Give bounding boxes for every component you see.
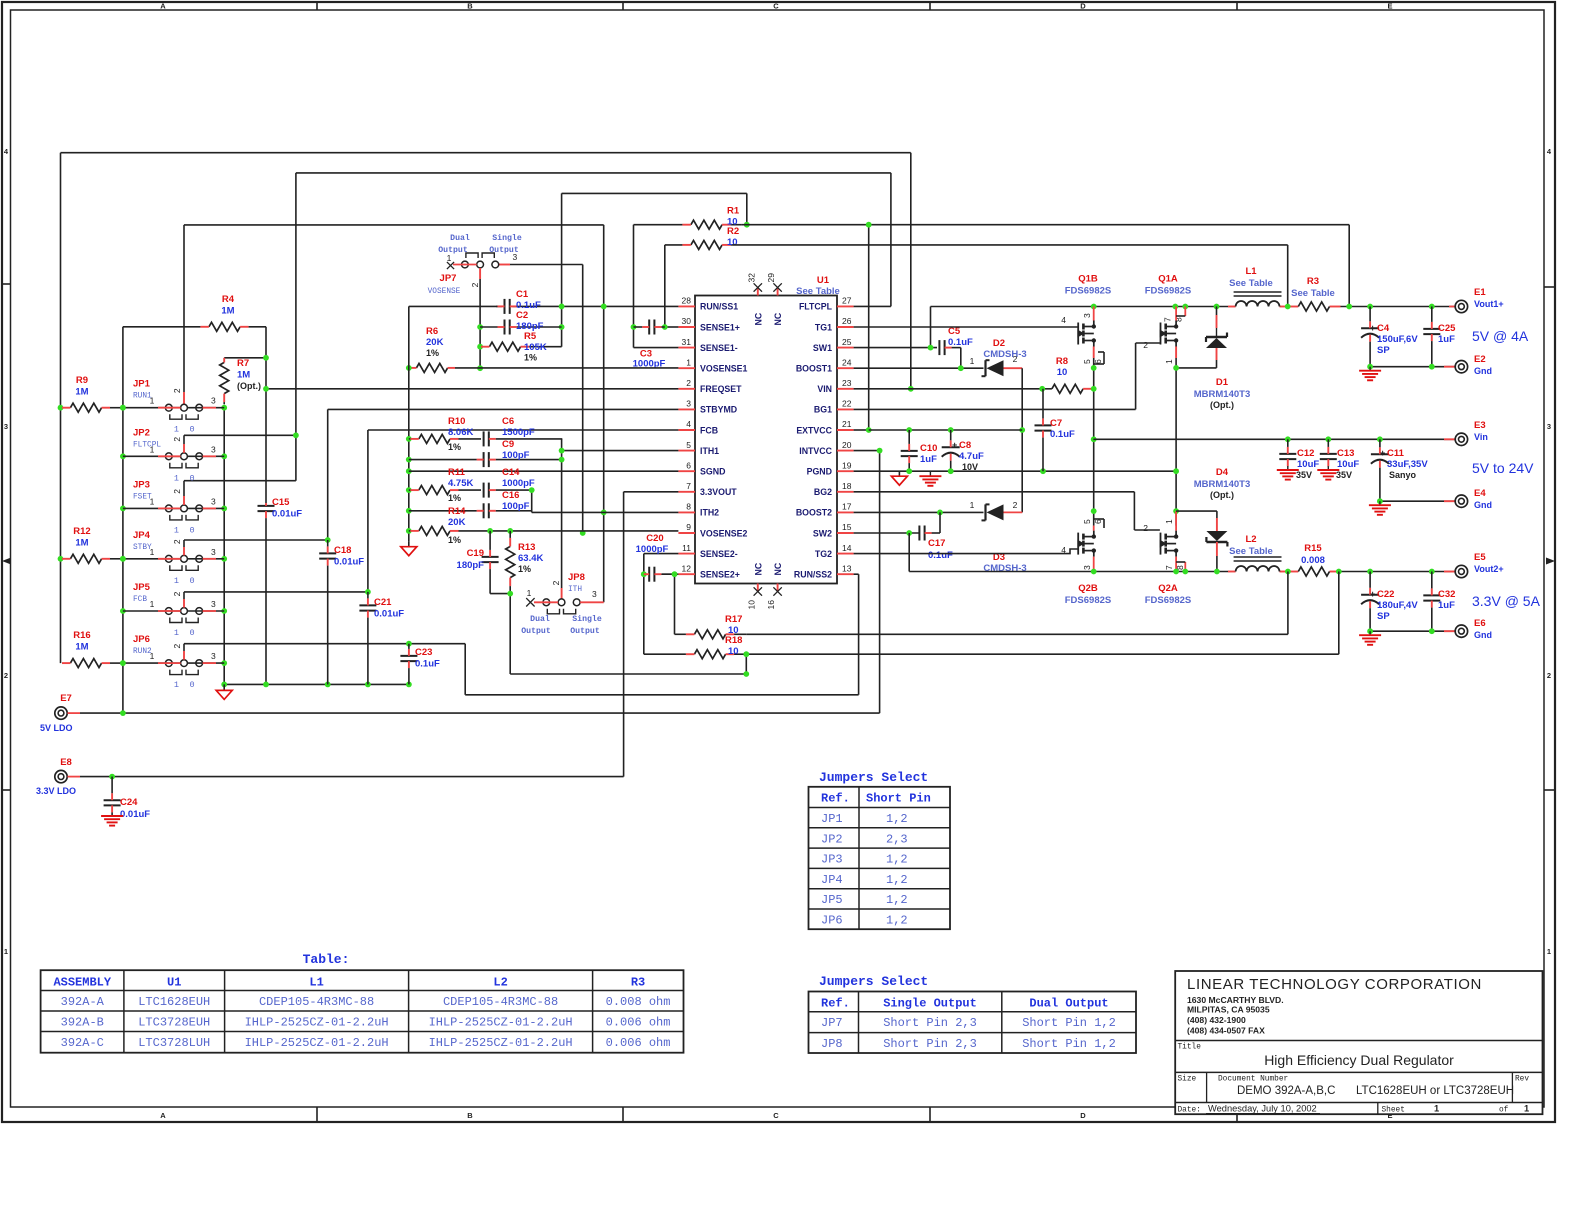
U1 pin 5 stub (ITH1) (678, 450, 695, 452)
svg-text:2: 2 (1143, 523, 1148, 533)
svg-text:392A-A: 392A-A (61, 995, 105, 1009)
svg-text:Vin: Vin (1474, 432, 1488, 442)
svg-text:1000pF: 1000pF (636, 544, 669, 555)
svg-text:MBRM140T3: MBRM140T3 (1194, 389, 1251, 400)
svg-text:Output: Output (438, 246, 468, 255)
svg-text:C21: C21 (374, 597, 392, 608)
svg-text:1: 1 (4, 947, 8, 956)
svg-text:25: 25 (842, 337, 852, 347)
svg-text:R15: R15 (1304, 543, 1322, 554)
JP6 position labels 1 0 (174, 680, 195, 690)
svg-text:1: 1 (150, 547, 155, 557)
svg-text:Jumpers Select: Jumpers Select (819, 770, 928, 785)
JP4 position labels 1 0 (174, 576, 195, 586)
D3 pin labels (970, 500, 1018, 510)
svg-text:CDEP105-4R3MC-88: CDEP105-4R3MC-88 (259, 995, 374, 1009)
svg-text:BOOST2: BOOST2 (796, 508, 832, 518)
svg-text:2,3: 2,3 (886, 832, 908, 846)
capacitor C9 (409, 452, 562, 467)
svg-text:29: 29 (766, 273, 776, 283)
svg-text:1: 1 (1524, 1104, 1529, 1114)
svg-text:C18: C18 (334, 545, 351, 556)
svg-text:DEMO 392A-A,B,C: DEMO 392A-A,B,C (1237, 1085, 1335, 1097)
svg-text:5V @ 4A: 5V @ 4A (1472, 328, 1529, 344)
JP7 pin 1 no-connect X and lead (447, 262, 477, 269)
svg-text:LTC1628EUH: LTC1628EUH (138, 995, 210, 1009)
capacitor C6 (484, 431, 563, 446)
wire Q2A gate from BG2 (854, 492, 1160, 530)
wire sense riser R15 right (1338, 572, 1340, 655)
svg-text:1: 1 (1164, 519, 1174, 524)
svg-text:C: C (773, 1111, 779, 1120)
capacitor C18 (319, 540, 336, 684)
svg-text:INTVCC: INTVCC (799, 446, 832, 456)
svg-text:0.006 ohm: 0.006 ohm (606, 1016, 671, 1030)
svg-text:1%: 1% (426, 348, 439, 358)
transistor Q2B (1077, 531, 1096, 557)
table jumpers-select-1 grid (809, 787, 951, 929)
svg-text:C17: C17 (928, 538, 945, 549)
svg-text:3: 3 (4, 422, 8, 431)
svg-text:1,2: 1,2 (886, 873, 908, 887)
svg-text:Ref.: Ref. (821, 792, 850, 806)
JP8 pin labels 1 2 3 (527, 580, 597, 599)
svg-text:C7: C7 (1050, 418, 1062, 429)
svg-text:5: 5 (1082, 519, 1092, 524)
svg-text:LTC3728EUH: LTC3728EUH (138, 1016, 210, 1030)
svg-text:R10: R10 (448, 416, 465, 427)
ground symbol C13 (1317, 467, 1339, 480)
capacitor C17 (919, 526, 940, 541)
svg-text:Q1B: Q1B (1078, 274, 1098, 285)
svg-text:0: 0 (189, 525, 194, 535)
svg-text:R16: R16 (73, 630, 90, 641)
svg-text:1%: 1% (518, 564, 531, 574)
U1 NC pin 10 bottom stub (757, 584, 759, 592)
svg-text:Sheet: Sheet (1382, 1107, 1405, 1115)
table jumpers-select-1 row JP3 (821, 853, 908, 867)
table jumpers-select-2 grid (809, 992, 1137, 1054)
JP7 Dual Output label (438, 233, 470, 255)
svg-text:BG1: BG1 (814, 405, 832, 415)
svg-text:105K: 105K (524, 342, 547, 353)
svg-text:(408) 434-0507 FAX: (408) 434-0507 FAX (1187, 1026, 1265, 1036)
wire FREQSET pull network column (224, 327, 678, 503)
svg-text:C6: C6 (502, 416, 514, 427)
wire Q2B source to SW2 rail (1093, 557, 1095, 572)
wire STBY net JP4 to pin 3 (184, 409, 678, 555)
svg-text:4.7uF: 4.7uF (959, 451, 984, 462)
svg-text:R2: R2 (727, 226, 739, 237)
svg-text:R1: R1 (727, 206, 740, 217)
svg-text:JP6: JP6 (821, 914, 843, 928)
diode D4 (1206, 511, 1227, 571)
connector E3 (1444, 433, 1468, 445)
svg-text:ITH: ITH (568, 586, 582, 594)
capacitor C22 (polarized) (1361, 572, 1379, 632)
svg-text:SP: SP (1377, 345, 1390, 356)
ground symbol signal ground bus (401, 542, 417, 556)
JP6 pin1 lead (123, 662, 181, 664)
wire Q1B source pins 5/6 to VIN node (1091, 347, 1104, 526)
svg-text:Date:: Date: (1178, 1107, 1201, 1115)
svg-text:35V: 35V (1336, 470, 1352, 480)
svg-text:+: + (952, 440, 957, 450)
svg-text:C24: C24 (120, 797, 138, 808)
Q2B pin number labels (1061, 519, 1103, 570)
svg-text:(Opt.): (Opt.) (1210, 400, 1234, 410)
svg-text:0.006 ohm: 0.006 ohm (606, 1036, 671, 1050)
wire SW2 corner to rail (908, 533, 910, 572)
svg-text:3: 3 (211, 496, 216, 506)
svg-text:1: 1 (1434, 1104, 1439, 1114)
svg-text:E: E (1387, 2, 1392, 11)
svg-text:Vout2+: Vout2+ (1474, 564, 1504, 574)
svg-text:19: 19 (842, 460, 852, 470)
svg-text:IHLP-2525CZ-01-2.2uH: IHLP-2525CZ-01-2.2uH (429, 1016, 573, 1030)
svg-text:1: 1 (174, 628, 179, 638)
svg-text:FDS6982S: FDS6982S (1145, 286, 1191, 297)
JP5 pin1 lead (123, 610, 181, 612)
svg-text:0: 0 (189, 425, 194, 435)
wire Q2A source pins 7/8 to SW2 rail (1176, 557, 1185, 572)
svg-text:0.01uF: 0.01uF (120, 809, 150, 820)
svg-text:3: 3 (211, 444, 216, 454)
svg-text:2: 2 (172, 489, 182, 494)
capacitor C24 (104, 777, 121, 816)
svg-text:NC: NC (753, 562, 763, 575)
svg-text:MBRM140T3: MBRM140T3 (1194, 479, 1251, 490)
JP3 pin3 lead (187, 507, 224, 509)
resistor R8 (1052, 384, 1094, 393)
inductor L1 (1234, 292, 1282, 307)
svg-text:4: 4 (1061, 315, 1066, 325)
wire R1 output sense net to EXTVCC (742, 222, 1350, 433)
svg-text:1: 1 (174, 576, 179, 586)
JP3 pin1 lead (123, 507, 181, 509)
wire SENSE2- net (pin 11) (641, 554, 679, 655)
svg-text:1: 1 (1547, 947, 1551, 956)
svg-text:1: 1 (174, 425, 179, 435)
svg-text:RUN/SS1: RUN/SS1 (700, 302, 738, 312)
svg-text:Gnd: Gnd (1474, 500, 1492, 510)
Q2A pin number labels (1143, 519, 1185, 570)
svg-text:392A-B: 392A-B (61, 1016, 104, 1030)
wire R9 to JP1 pin1 (110, 407, 123, 409)
svg-text:Short Pin 2,3: Short Pin 2,3 (883, 1037, 977, 1051)
svg-text:4.75K: 4.75K (448, 478, 473, 489)
wire BOOST2 row (854, 510, 984, 516)
table main row 392A-B (61, 1016, 671, 1030)
svg-text:16: 16 (766, 600, 776, 610)
wire Q1A gate from BG1 (854, 343, 1160, 409)
svg-text:IHLP-2525CZ-01-2.2uH: IHLP-2525CZ-01-2.2uH (429, 1036, 573, 1050)
JP6 pin number labels (150, 643, 216, 661)
transistor Q2A (1160, 531, 1179, 557)
wire JP7 pin2 riser to divider (477, 268, 483, 371)
svg-text:JP5: JP5 (821, 893, 843, 907)
svg-text:JP7: JP7 (821, 1016, 843, 1030)
svg-text:3: 3 (1082, 313, 1092, 318)
ground symbol C24 (101, 816, 123, 826)
svg-text:U1: U1 (817, 275, 830, 286)
svg-text:2: 2 (172, 591, 182, 596)
resistor R9 (62, 403, 110, 412)
capacitor C21 (359, 592, 376, 685)
JP8 pin 1 no-connect X and lead (526, 598, 558, 606)
U1 NC pin 29 top stub (777, 288, 779, 296)
Q1B pin number labels (1061, 313, 1103, 364)
svg-text:26: 26 (842, 316, 852, 326)
ground symbol output2 (1359, 631, 1381, 645)
svg-text:Dual: Dual (530, 614, 550, 624)
JP4 pin3 lead (187, 558, 224, 560)
wire EXTVCC boost-diode riser (1019, 368, 1025, 512)
JP4 pin number labels (150, 539, 216, 557)
JP4 pin1 lead (123, 558, 181, 560)
svg-text:JP2: JP2 (133, 427, 150, 438)
svg-text:Title: Title (1178, 1044, 1202, 1052)
zone row dividers right (1544, 287, 1555, 790)
diode D2 (982, 360, 1023, 376)
jumper JP8 (543, 599, 580, 614)
JP5 pin3 lead (187, 610, 224, 612)
svg-text:SENSE2-: SENSE2- (700, 549, 738, 559)
svg-text:PGND: PGND (807, 467, 832, 477)
svg-text:A: A (160, 2, 166, 11)
svg-text:See Table: See Table (796, 286, 840, 297)
svg-text:Sanyo: Sanyo (1389, 470, 1417, 480)
JP7 pin labels 1 2 3 (447, 252, 518, 287)
svg-text:0.1uF: 0.1uF (1050, 429, 1075, 440)
connector E4 (1444, 495, 1468, 507)
svg-text:1M: 1M (75, 642, 88, 653)
svg-text:20: 20 (842, 440, 852, 450)
connector E8 (55, 770, 80, 782)
JP1 pin1 lead (123, 407, 181, 409)
svg-text:3.3VOUT: 3.3VOUT (700, 487, 737, 497)
U1 pin 17 stub (BOOST2) (837, 511, 854, 513)
U1 pin 30 stub (SENSE1+) (678, 326, 695, 328)
svg-text:E5: E5 (1474, 552, 1486, 563)
U1 pin 12 stub (SENSE2+) (678, 573, 695, 575)
svg-text:R8: R8 (1056, 356, 1068, 367)
svg-text:RUN/SS2: RUN/SS2 (794, 570, 832, 580)
capacitor C12 (1279, 439, 1296, 467)
wire bypass ground bus bottom (221, 682, 411, 688)
svg-text:3.3V LDO: 3.3V LDO (36, 786, 76, 796)
svg-text:SW1: SW1 (813, 343, 832, 353)
svg-text:R7: R7 (237, 358, 249, 369)
U1 pin 2 stub (FREQSET) (678, 388, 695, 390)
U1 NC pin 32 top stub (757, 288, 759, 296)
svg-text:D2: D2 (993, 338, 1005, 349)
wire Q1A drain pins 7/8 to SW1 rail (1176, 307, 1185, 321)
svg-text:1%: 1% (524, 353, 537, 363)
U1 pin 7 stub (3.3VOUT) (678, 491, 695, 493)
U1 NC pin 16 no-connect X (773, 587, 781, 595)
svg-text:24: 24 (842, 357, 852, 367)
table jumpers-select-1 row JP1 (821, 812, 908, 826)
ground symbol PGND triangle (891, 471, 907, 485)
zone numbers right 4-1 (1547, 147, 1552, 956)
svg-text:LINEAR TECHNOLOGY CORPORATION: LINEAR TECHNOLOGY CORPORATION (1187, 976, 1482, 993)
svg-text:1uF: 1uF (1438, 600, 1455, 611)
JP1 position labels 1 0 (174, 425, 195, 435)
svg-text:12: 12 (682, 563, 692, 573)
svg-text:Q2A: Q2A (1158, 583, 1178, 594)
svg-text:1: 1 (174, 680, 179, 690)
title block date value (1206, 1104, 1320, 1114)
svg-text:1,2: 1,2 (886, 812, 908, 826)
svg-text:8.06K: 8.06K (448, 427, 473, 438)
U1 NC pin 29 no-connect X (773, 283, 781, 291)
U1 pin 23 stub (VIN) (837, 388, 854, 390)
wire SENSE1+ net (C3 right / pin 30 / R2) (662, 245, 679, 330)
svg-text:JP4: JP4 (821, 873, 843, 887)
svg-text:Document Number: Document Number (1218, 1076, 1288, 1084)
svg-text:Dual: Dual (450, 233, 470, 243)
svg-text:JP3: JP3 (821, 853, 843, 867)
wire SENSE1- net (C3 left / pin 31 / R1) (631, 225, 679, 348)
wire Q1B gate from TG1 (854, 326, 1079, 328)
svg-text:3: 3 (211, 599, 216, 609)
svg-text:10: 10 (746, 600, 756, 610)
svg-text:8: 8 (1174, 317, 1184, 322)
svg-text:C13: C13 (1337, 448, 1354, 459)
svg-text:L1: L1 (1245, 266, 1257, 277)
U1 NC pin 32 no-connect X (754, 283, 762, 291)
connector E5 (1444, 565, 1468, 577)
svg-text:1: 1 (150, 496, 155, 506)
jumper JP6 (165, 660, 202, 675)
svg-text:0.1uF: 0.1uF (928, 550, 953, 561)
capacitor C11 (polarized) (1371, 439, 1389, 501)
jumper JP3 (165, 505, 202, 520)
svg-text:392A-C: 392A-C (61, 1036, 104, 1050)
svg-text:Size: Size (1178, 1076, 1197, 1084)
svg-text:2: 2 (4, 671, 8, 680)
wire FLTCPL net (JP2 to pin 27) (184, 173, 891, 481)
JP5 pin number labels (150, 591, 216, 609)
svg-text:1: 1 (150, 444, 155, 454)
wire output1 ground row (1367, 364, 1455, 370)
svg-text:30: 30 (682, 316, 692, 326)
JP3 position labels 1 0 (174, 525, 195, 535)
Q1A pin number labels (1143, 317, 1183, 364)
resistor R1 (634, 220, 742, 229)
jumper JP1 (165, 404, 202, 419)
svg-text:32: 32 (746, 273, 756, 283)
wire input ground row to E4 (1377, 498, 1455, 504)
zone numbers left 4-1 (4, 147, 9, 956)
wire RUN/SS1 net (pin 28) (409, 193, 750, 346)
table jumpers-select-2 row JP7 (821, 1016, 1116, 1030)
svg-text:E7: E7 (60, 693, 72, 704)
svg-text:R4: R4 (222, 294, 235, 305)
svg-text:FDS6982S: FDS6982S (1145, 595, 1191, 606)
svg-text:B: B (467, 2, 473, 11)
svg-text:JP1: JP1 (821, 812, 843, 826)
svg-text:L2: L2 (493, 976, 507, 990)
svg-text:Table:: Table: (303, 952, 350, 967)
resistor R7 (220, 358, 229, 405)
svg-text:STBYMD: STBYMD (700, 405, 737, 415)
wire R18 output net (743, 651, 1338, 677)
svg-text:TG2: TG2 (815, 549, 832, 559)
capacitor C3 (634, 320, 665, 335)
svg-text:See Table: See Table (1229, 546, 1273, 557)
svg-text:C19: C19 (467, 548, 484, 559)
svg-text:C15: C15 (272, 497, 290, 508)
resistor R16 (62, 659, 110, 668)
svg-text:2: 2 (172, 539, 182, 544)
svg-text:VIN: VIN (817, 384, 832, 394)
wire Q2A drain pin 1 from PGND riser and D4 (1176, 511, 1217, 530)
svg-text:FCB: FCB (700, 425, 718, 435)
capacitor C7 (1035, 389, 1052, 471)
capacitor C4 (polarized) (1361, 307, 1379, 367)
svg-text:1: 1 (150, 651, 155, 661)
capacitor C5 (939, 340, 960, 355)
transistor Q1A (1160, 321, 1179, 347)
svg-text:BOOST1: BOOST1 (796, 364, 832, 374)
svg-text:1630 McCARTHY BLVD.: 1630 McCARTHY BLVD. (1187, 995, 1284, 1005)
svg-text:A: A (160, 1111, 166, 1120)
svg-text:1uF: 1uF (920, 454, 937, 465)
wire 5V LDO net E7 to INTVCC (80, 448, 882, 716)
connector E6 (1444, 625, 1468, 637)
U1 pin 31 stub (SENSE1-) (678, 347, 695, 349)
wire SW2 rail to output E5 (909, 569, 1455, 575)
svg-text:1M: 1M (221, 306, 234, 317)
U1 pin 25 stub (SW1) (837, 347, 854, 349)
svg-text:(Opt.): (Opt.) (1210, 490, 1234, 500)
wire R16 to JP6 pin1 (110, 662, 123, 664)
table jumpers-select-1 row JP5 (821, 893, 908, 907)
svg-text:LTC1628EUH or LTC3728EUH: LTC1628EUH or LTC3728EUH (1356, 1085, 1514, 1097)
wire R12 to JP4 pin1 (110, 558, 123, 560)
jumper JP7 (462, 253, 499, 268)
svg-text:10uF: 10uF (1297, 459, 1319, 470)
svg-text:R11: R11 (448, 467, 466, 478)
wire sense riser L2 left (1287, 572, 1289, 635)
svg-text:0: 0 (189, 473, 194, 483)
svg-text:C10: C10 (920, 443, 937, 454)
svg-text:3.3V @ 5A: 3.3V @ 5A (1472, 593, 1541, 609)
svg-text:1,2: 1,2 (886, 853, 908, 867)
svg-text:18: 18 (842, 481, 852, 491)
svg-text:IHLP-2525CZ-01-2.2uH: IHLP-2525CZ-01-2.2uH (245, 1036, 389, 1050)
JP3 pin number labels (150, 489, 216, 507)
diode D3 (982, 504, 1023, 520)
svg-text:28: 28 (682, 296, 692, 306)
svg-text:JP7: JP7 (440, 273, 457, 284)
JP2 pin number labels (150, 437, 216, 455)
capacitor C8 (polarized) (942, 430, 960, 471)
capacitor C32 (1423, 572, 1440, 632)
svg-text:Output: Output (521, 627, 551, 636)
wire Q2B gate from TG2 (854, 549, 1079, 554)
svg-text:7: 7 (686, 481, 691, 491)
svg-text:0.008: 0.008 (1301, 555, 1325, 566)
svg-text:VOSENSE1: VOSENSE1 (700, 364, 748, 374)
JP1 pin3 lead (187, 407, 224, 409)
svg-text:C: C (773, 2, 779, 11)
U1 pin 28 stub (RUN/SS1) (678, 305, 695, 307)
svg-text:JP5: JP5 (133, 582, 151, 593)
svg-text:Short Pin 1,2: Short Pin 1,2 (1022, 1016, 1116, 1030)
